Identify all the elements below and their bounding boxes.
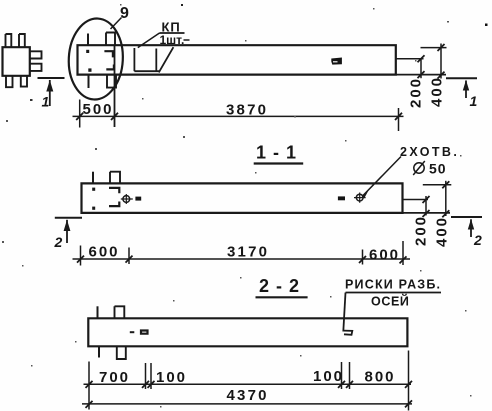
- top tab plate (view 2-2): [115, 306, 125, 318]
- axis mark (riska): [344, 331, 353, 335]
- dim line 600/3170/600: [73, 258, 411, 260]
- leader to axis mark: [343, 293, 345, 332]
- dim line 400 vertical (view 1-1): [445, 181, 447, 216]
- mid extension line at hole level (view 1-1): [403, 199, 429, 201]
- corner bracket lower (inside head): [106, 65, 114, 70]
- dash after 1sht: [184, 39, 190, 41]
- svg-text:1шт.: 1шт.: [160, 33, 185, 47]
- svg-text:ОСЕЙ: ОСЕЙ: [371, 294, 409, 309]
- end-view bottom tab left: [6, 76, 13, 87]
- svg-text:400: 400: [434, 216, 451, 247]
- corner bracket upper (inside head): [104, 51, 113, 57]
- section arrow 2 (left): arrow: [64, 220, 71, 243]
- tick at 3870 right: [395, 113, 402, 120]
- embedded plate mark (top view, right half): [331, 58, 342, 65]
- weld mark left of hole 2: [338, 196, 345, 200]
- ext line far right (view 2-2 dims): [408, 351, 410, 411]
- end-view top tab left: [6, 34, 12, 47]
- diameter symbol: [413, 161, 425, 175]
- weld mark right of hole 1: [135, 197, 141, 201]
- beam outline (top view): [78, 45, 396, 74]
- end-view square (far left): [3, 47, 30, 76]
- section arrow 2 (right): reference line: [451, 216, 482, 218]
- svg-text:800: 800: [365, 369, 396, 386]
- svg-text:3170: 3170: [227, 244, 269, 261]
- top rod (view 2-2): [97, 306, 99, 318]
- svg-text:400: 400: [429, 76, 446, 107]
- anchor dot upper (inside head): [86, 50, 89, 53]
- end-view right tab upper: [30, 51, 42, 58]
- beam outline (view 2-2): [88, 318, 407, 346]
- dim line 200 vertical (view 1-1): [425, 196, 427, 215]
- top tab plate on head (top view): [106, 33, 115, 46]
- console parallelogram: left vertical: [133, 48, 135, 71]
- hole 2 circle (view 1-1): [356, 194, 363, 201]
- svg-text:500: 500: [83, 101, 114, 118]
- bracket ] upper part (view 1-1): [109, 188, 119, 193]
- bottom edge extension to dims (view 1-1): [403, 212, 451, 214]
- svg-text:600: 600: [89, 244, 120, 261]
- tick 400 top (top view): [438, 44, 445, 51]
- leader to label 9: [111, 18, 122, 30]
- detail ellipse 9: [67, 17, 125, 101]
- tick 400 bottom (top view): [438, 72, 445, 79]
- console parallelogram: middle vertical: [155, 49, 157, 72]
- bottom edge extension to dims (top view): [396, 74, 446, 76]
- svg-text:1: 1: [470, 93, 478, 109]
- flag KP leader line: [138, 33, 160, 48]
- small dash mark (view 2-2): [130, 331, 135, 333]
- tick at 500 left: [76, 113, 83, 120]
- end-view bottom tab right: [21, 76, 27, 87]
- dim line 200 vertical (top view): [420, 59, 422, 78]
- hole 2 cross-lines (view 1-1): [354, 193, 366, 203]
- section arrow 2 (left): reference line: [55, 217, 82, 219]
- section arrow 1 (right): arrow: [463, 80, 469, 98]
- svg-text:700: 700: [99, 369, 130, 386]
- ext line 600 left inner: [128, 248, 130, 265]
- end-view right tab lower: [30, 64, 42, 71]
- svg-text:2: 2: [473, 232, 482, 248]
- section arrow 2 (right): arrow: [468, 219, 474, 237]
- top extension line for 400 (top view): [421, 47, 447, 49]
- extension line left (500): [79, 100, 81, 128]
- bottom tab plate (view 2-2): [117, 346, 126, 359]
- svg-text:2ХОТВ.: 2ХОТВ.: [400, 145, 459, 159]
- ext line pair right b: [349, 362, 351, 389]
- head block right edge / 500 extension line: [114, 45, 116, 127]
- title underline 2-2: [256, 296, 308, 298]
- tick b4: [338, 381, 345, 388]
- svg-text:9: 9: [120, 5, 129, 22]
- ext line left (view 1-1 dims): [80, 246, 82, 266]
- section arrow 1 (left): reference line: [38, 77, 65, 79]
- dim line 4370: [82, 403, 412, 405]
- dim line 400 vertical (top view): [440, 44, 442, 79]
- top tab plate (view 1-1): [110, 172, 120, 184]
- tick b1: [86, 381, 93, 388]
- flag KP shelf underline: [160, 32, 185, 34]
- anchor dot lower (inside head): [88, 68, 91, 71]
- top extension line for 400 (view 1-1): [423, 184, 452, 186]
- svg-text:600: 600: [369, 247, 400, 264]
- tick c2: [405, 400, 412, 407]
- hole 1 cross-lines (view 1-1): [121, 194, 133, 204]
- tick c1: [86, 401, 93, 408]
- svg-text:РИСКИ РАЗБ.: РИСКИ РАЗБ.: [345, 278, 441, 292]
- beam outline (view 1-1): [82, 183, 403, 213]
- dim line 500+3870: [73, 115, 404, 117]
- console parallelogram: right slant: [159, 47, 174, 72]
- svg-text:100: 100: [156, 369, 187, 386]
- note shelf underline: [346, 292, 442, 294]
- tick b2: [142, 381, 149, 388]
- title underline 1-1: [254, 162, 304, 164]
- top rod (view 1-1): [92, 172, 94, 184]
- tick 400 bottom (view 1-1): [442, 210, 449, 217]
- bottom rod on head (top view): [88, 75, 90, 88]
- tick 400 top (view 1-1): [442, 181, 449, 188]
- ext line pair left a: [145, 363, 147, 389]
- tick 200 top (view 1-1): [423, 196, 430, 203]
- ext line 600 right inner: [362, 250, 364, 265]
- top rod on head (top view): [87, 34, 89, 46]
- svg-text:1 - 1: 1 - 1: [256, 143, 297, 163]
- section arrow 1 (right): reference line: [446, 77, 477, 79]
- anchor dot lower (view 1-1): [92, 207, 95, 210]
- tick at 500/3870: [111, 113, 118, 120]
- ext line far left (view 2-2 dims): [88, 362, 90, 410]
- svg-text:4370: 4370: [227, 387, 269, 404]
- tick b5: [346, 381, 353, 388]
- svg-text:100: 100: [313, 368, 344, 385]
- end-view top tab right: [19, 34, 25, 47]
- svg-text:2 - 2: 2 - 2: [259, 276, 300, 296]
- bottom rod (view 2-2): [98, 346, 100, 357]
- bottom tab plate on head (top view): [107, 75, 116, 88]
- tick v14: [400, 256, 407, 263]
- svg-text:200: 200: [413, 215, 430, 246]
- ext line pair left b: [150, 363, 152, 389]
- svg-text:2: 2: [54, 234, 63, 250]
- tick at 200 top (top view): [418, 55, 425, 62]
- tick v11: [77, 256, 84, 263]
- tick b3: [148, 381, 155, 388]
- bracket ] lower part (view 1-1): [109, 202, 119, 207]
- svg-text:50: 50: [429, 161, 447, 177]
- tick 200 bottom (view 1-1): [423, 210, 430, 217]
- svg-text:1: 1: [42, 94, 50, 110]
- tick at 200/400 bottom (top view): [418, 71, 425, 78]
- tick v12: [126, 256, 133, 263]
- hole 1 circle (view 1-1): [123, 196, 130, 203]
- section arrow 1 (left): arrow: [46, 80, 53, 106]
- svg-text:3870: 3870: [226, 102, 268, 119]
- tick b6: [405, 381, 412, 388]
- svg-text:200: 200: [408, 77, 425, 108]
- ext line right (view 1-1 dims): [402, 241, 404, 265]
- dim line 700/100/100/800: [84, 383, 412, 385]
- mid extension line at right beam end (top view): [396, 58, 424, 60]
- ext line pair right a: [341, 362, 343, 389]
- console parallelogram: bottom line: [134, 70, 159, 72]
- small plate mark (view 2-2): [141, 331, 148, 334]
- leader line for holes note: [363, 157, 402, 197]
- extension line right end 3870: [398, 108, 400, 131]
- anchor dot upper (view 1-1): [92, 188, 95, 191]
- tick v13: [359, 256, 366, 263]
